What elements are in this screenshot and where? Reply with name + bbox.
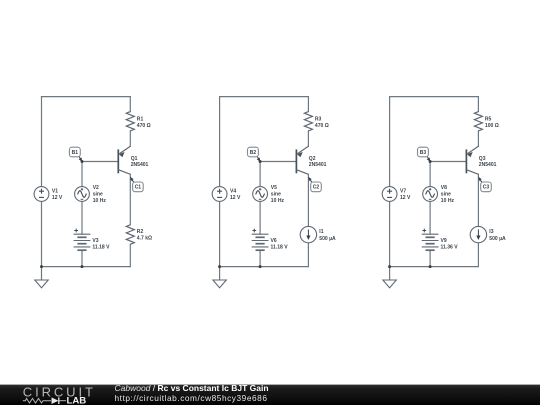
junction: [218, 265, 221, 268]
wire: [41, 267, 43, 280]
svg-text:sine: sine: [441, 191, 451, 197]
wire: [430, 161, 466, 163]
svg-text:sine: sine: [93, 191, 103, 197]
junction: [429, 160, 432, 163]
svg-text:470 Ω: 470 Ω: [137, 123, 151, 129]
wire: [129, 244, 131, 266]
wire: [259, 201, 261, 234]
svg-text:http://circuitlab.com/cw85hcy3: http://circuitlab.com/cw85hcy39e686: [115, 393, 268, 403]
wire: [307, 131, 309, 146]
junction: [40, 265, 43, 268]
ground: [35, 280, 48, 288]
svg-text:LAB: LAB: [67, 396, 87, 405]
svg-text:10 Hz: 10 Hz: [271, 198, 285, 204]
footer title text: [115, 383, 269, 403]
wire: [389, 201, 391, 266]
wire: [259, 162, 261, 187]
svg-text:R2: R2: [137, 229, 144, 235]
wire: [81, 250, 83, 266]
wire: [429, 162, 431, 187]
svg-text:V4: V4: [230, 188, 236, 194]
resistor R2: [126, 225, 152, 245]
svg-text:V3: V3: [92, 238, 98, 244]
transistor Q2: [296, 146, 326, 174]
svg-text:Q3: Q3: [479, 156, 486, 162]
resistor R3: [304, 112, 328, 131]
footer bar: [0, 385, 540, 405]
wire: [389, 267, 391, 280]
wire: [129, 131, 131, 146]
svg-text:11.36 V: 11.36 V: [441, 245, 459, 251]
transistor Q1: [118, 146, 148, 174]
wire: [429, 250, 431, 266]
node B1: [69, 147, 82, 162]
svg-text:2N5401: 2N5401: [309, 162, 327, 168]
resistor R1: [126, 112, 150, 131]
junction: [81, 160, 84, 163]
wire: [477, 131, 479, 146]
svg-text:Cabwood / Rc vs Constant Ic BJ: Cabwood / Rc vs Constant Ic BJT Gain: [115, 383, 269, 393]
resistor R5: [474, 112, 498, 131]
svg-text:V6: V6: [271, 238, 277, 244]
node B2: [248, 147, 261, 162]
svg-text:V8: V8: [441, 185, 447, 191]
node C3: [478, 177, 491, 192]
svg-text:I1: I1: [319, 229, 323, 235]
wire: [220, 96, 309, 98]
wire: [477, 97, 479, 112]
wire: [390, 266, 479, 268]
svg-text:12 V: 12 V: [52, 195, 63, 201]
svg-text:V7: V7: [400, 188, 406, 194]
wire: [260, 161, 296, 163]
svg-text:sine: sine: [271, 191, 281, 197]
svg-text:12 V: 12 V: [400, 195, 411, 201]
ground: [213, 280, 226, 288]
wire: [307, 174, 309, 226]
svg-text:V1: V1: [52, 188, 58, 194]
svg-text:R1: R1: [137, 116, 144, 122]
svg-text:500 µA: 500 µA: [489, 236, 506, 242]
wire: [307, 97, 309, 112]
wire: [307, 243, 309, 267]
wire: [82, 161, 118, 163]
voltage source V7: [382, 187, 411, 202]
svg-text:470 Ω: 470 Ω: [315, 123, 329, 129]
junction: [259, 160, 262, 163]
voltage source V4: [212, 187, 241, 202]
svg-text:Q1: Q1: [131, 156, 138, 162]
current source I1: [300, 226, 336, 242]
wire: [42, 96, 131, 98]
wire: [219, 97, 221, 187]
wire: [220, 266, 309, 268]
svg-text:11.18 V: 11.18 V: [92, 245, 110, 251]
voltage source V1: [34, 187, 63, 202]
battery V6: [252, 229, 289, 251]
wire: [429, 201, 431, 234]
svg-text:R3: R3: [315, 116, 322, 122]
wire: [389, 97, 391, 187]
wire: [477, 174, 479, 226]
svg-text:4.7 kΩ: 4.7 kΩ: [137, 236, 152, 242]
current source I3: [470, 226, 506, 242]
svg-text:2N5401: 2N5401: [131, 162, 149, 168]
wire: [259, 250, 261, 266]
svg-text:2N5401: 2N5401: [479, 162, 497, 168]
svg-text:V9: V9: [441, 238, 447, 244]
node C1: [130, 177, 143, 192]
node B3: [418, 147, 431, 162]
wire: [41, 97, 43, 187]
svg-text:B2: B2: [250, 150, 257, 156]
sine source V5: [253, 185, 285, 204]
wire: [42, 266, 131, 268]
svg-text:C3: C3: [483, 185, 490, 191]
sine source V2: [75, 185, 107, 204]
ground: [383, 280, 396, 288]
svg-text:12 V: 12 V: [230, 195, 241, 201]
junction: [259, 265, 262, 268]
svg-text:R5: R5: [485, 116, 492, 122]
svg-text:B1: B1: [72, 150, 79, 156]
svg-text:I3: I3: [489, 229, 493, 235]
wire: [81, 162, 83, 187]
wire: [41, 201, 43, 266]
wire: [219, 201, 221, 266]
svg-text:10 Hz: 10 Hz: [441, 198, 455, 204]
wire: [129, 174, 131, 225]
svg-text:10 Hz: 10 Hz: [93, 198, 107, 204]
battery V9: [422, 229, 459, 251]
node C2: [308, 177, 321, 192]
transistor Q3: [466, 146, 496, 174]
battery V3: [74, 229, 111, 251]
wire: [390, 96, 479, 98]
CircuitLab logo: [23, 384, 96, 405]
junction: [388, 265, 391, 268]
svg-text:500 µA: 500 µA: [319, 236, 336, 242]
svg-text:11.18 V: 11.18 V: [271, 245, 289, 251]
junction: [81, 265, 84, 268]
svg-text:Q2: Q2: [309, 156, 316, 162]
svg-text:V2: V2: [93, 185, 99, 191]
svg-text:B3: B3: [420, 150, 427, 156]
wire: [477, 243, 479, 267]
svg-text:C1: C1: [135, 185, 142, 191]
svg-text:C2: C2: [313, 185, 320, 191]
svg-text:V5: V5: [271, 185, 277, 191]
wire: [129, 97, 131, 112]
wire: [81, 201, 83, 234]
svg-text:100 Ω: 100 Ω: [485, 123, 499, 129]
sine source V8: [423, 185, 455, 204]
junction: [429, 265, 432, 268]
wire: [219, 267, 221, 280]
